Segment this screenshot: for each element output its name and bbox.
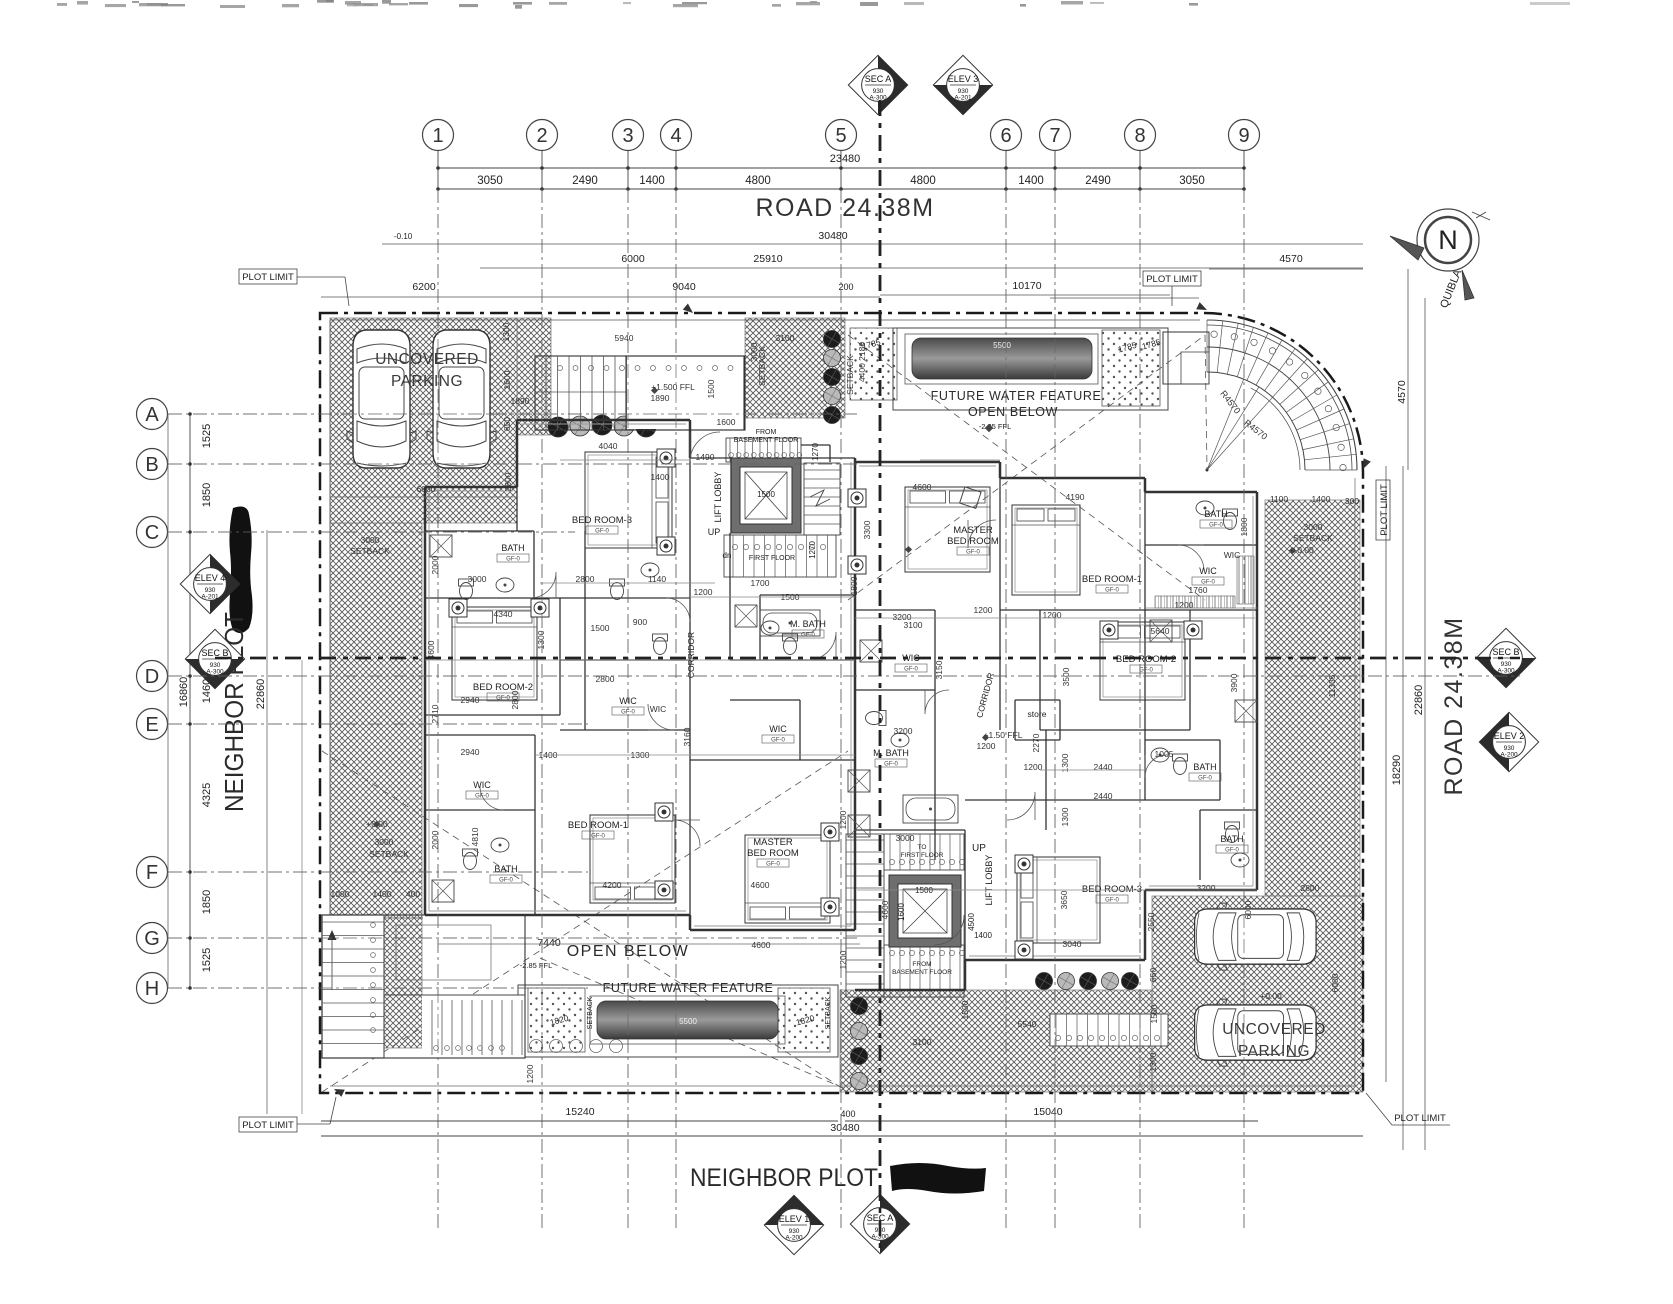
- svg-text:5500: 5500: [679, 1017, 697, 1026]
- svg-text:3100: 3100: [913, 1037, 932, 1047]
- svg-text:GF-0: GF-0: [1105, 588, 1119, 594]
- svg-text:10170: 10170: [1012, 280, 1041, 292]
- svg-text:3200: 3200: [1197, 883, 1216, 893]
- svg-text:1500: 1500: [960, 1000, 970, 1019]
- svg-text:4600: 4600: [752, 940, 771, 950]
- svg-text:LIFT LOBBY: LIFT LOBBY: [984, 855, 994, 906]
- svg-text:11335: 11335: [1327, 674, 1337, 697]
- svg-text:SETBACK: SETBACK: [369, 849, 409, 859]
- svg-text:2490: 2490: [572, 175, 598, 187]
- svg-text:30480: 30480: [830, 1122, 859, 1134]
- svg-text:1400: 1400: [373, 889, 392, 899]
- svg-text:2800: 2800: [576, 574, 595, 584]
- svg-text:ELEV 1: ELEV 1: [779, 1214, 810, 1224]
- svg-text:ELEV 3: ELEV 3: [948, 74, 979, 84]
- svg-text:3650: 3650: [1059, 890, 1069, 909]
- svg-text:GF-0: GF-0: [591, 834, 605, 840]
- svg-text:1500: 1500: [591, 623, 610, 633]
- svg-text:N: N: [1438, 225, 1458, 255]
- svg-text:1500: 1500: [706, 379, 716, 398]
- svg-text:1500: 1500: [1149, 1004, 1159, 1023]
- svg-text:3000: 3000: [1304, 522, 1323, 532]
- svg-text:PLOT LIMIT: PLOT LIMIT: [1379, 484, 1390, 536]
- svg-text:400: 400: [406, 889, 420, 899]
- svg-text:SETBACK: SETBACK: [845, 355, 855, 395]
- svg-text:1525: 1525: [201, 948, 213, 972]
- svg-text:UNCOVERED: UNCOVERED: [1222, 1021, 1326, 1038]
- svg-text:25910: 25910: [753, 253, 782, 265]
- svg-text:1600: 1600: [897, 903, 906, 921]
- svg-text:4400 2180: 4400 2180: [857, 342, 867, 382]
- svg-text:PLOT LIMIT: PLOT LIMIT: [242, 1120, 294, 1131]
- svg-text:1760: 1760: [1189, 585, 1208, 595]
- svg-text:BED ROOM: BED ROOM: [747, 848, 799, 859]
- svg-text:BATH: BATH: [1220, 834, 1243, 844]
- svg-text:-2.85 FFL: -2.85 FFL: [979, 422, 1012, 431]
- svg-text:ELEV 2: ELEV 2: [1494, 731, 1525, 741]
- svg-text:3300: 3300: [862, 520, 872, 539]
- svg-text:1800: 1800: [849, 576, 859, 595]
- svg-text:1200: 1200: [694, 587, 713, 597]
- svg-text:1200: 1200: [525, 1064, 535, 1083]
- svg-text:3000: 3000: [468, 574, 487, 584]
- svg-text:9: 9: [1238, 125, 1249, 147]
- svg-text:FROM: FROM: [756, 429, 777, 436]
- svg-text:7440: 7440: [537, 937, 561, 949]
- svg-text:2710: 2710: [430, 704, 440, 723]
- svg-text:7: 7: [1049, 125, 1060, 147]
- svg-text:1140: 1140: [648, 574, 667, 584]
- svg-text:GF-0: GF-0: [1139, 668, 1153, 674]
- svg-text:UNCOVERED: UNCOVERED: [375, 351, 479, 368]
- svg-text:2440: 2440: [1094, 791, 1113, 801]
- svg-text:2: 2: [536, 125, 547, 147]
- svg-text:C: C: [145, 522, 159, 544]
- svg-text:4340: 4340: [494, 609, 513, 619]
- svg-text:M. BATH: M. BATH: [873, 748, 909, 758]
- svg-text:-0.10: -0.10: [394, 232, 413, 241]
- svg-text:GF-0: GF-0: [475, 794, 489, 800]
- svg-text:BASEMENT FLOOR: BASEMENT FLOOR: [892, 969, 952, 976]
- svg-text:PLOT LIMIT: PLOT LIMIT: [1394, 1113, 1446, 1124]
- svg-text:4600: 4600: [751, 880, 770, 890]
- svg-text:BED ROOM-3: BED ROOM-3: [572, 515, 632, 526]
- svg-text:3050: 3050: [477, 175, 503, 187]
- svg-text:1300: 1300: [1148, 1052, 1158, 1071]
- svg-text:3160: 3160: [682, 727, 692, 746]
- svg-text:8: 8: [1134, 125, 1145, 147]
- svg-text:LIFT LOBBY: LIFT LOBBY: [713, 472, 723, 523]
- svg-text:WIC: WIC: [473, 780, 491, 790]
- svg-text:1400: 1400: [974, 931, 992, 940]
- svg-text:4570: 4570: [1396, 380, 1408, 404]
- svg-text:A-200: A-200: [785, 1235, 803, 1242]
- svg-text:3200: 3200: [893, 612, 912, 622]
- svg-text:2800: 2800: [510, 690, 520, 709]
- svg-text:ROAD 24.38M: ROAD 24.38M: [1440, 616, 1468, 795]
- svg-text:GF-0: GF-0: [966, 550, 980, 556]
- svg-text:H: H: [145, 978, 159, 1000]
- svg-text:6000: 6000: [417, 484, 436, 494]
- svg-text:5540: 5540: [1018, 1019, 1037, 1029]
- svg-text:A-200: A-200: [1500, 752, 1518, 759]
- svg-text:GF-0: GF-0: [801, 633, 815, 639]
- svg-text:GF-0: GF-0: [884, 762, 898, 768]
- svg-text:3000: 3000: [749, 342, 759, 361]
- svg-text:1300: 1300: [1060, 807, 1070, 826]
- svg-text:1000: 1000: [331, 889, 350, 899]
- svg-text:5: 5: [835, 125, 846, 147]
- svg-text:A-201: A-201: [954, 95, 972, 102]
- svg-text:1100: 1100: [1270, 494, 1289, 504]
- svg-text:1200: 1200: [838, 810, 848, 829]
- svg-text:6: 6: [1000, 125, 1011, 147]
- svg-text:A-201: A-201: [201, 594, 219, 601]
- svg-text:WIC: WIC: [1224, 550, 1241, 560]
- svg-text:D: D: [145, 666, 159, 688]
- svg-text:4810: 4810: [470, 827, 480, 846]
- svg-text:SEC A: SEC A: [865, 74, 892, 84]
- svg-text:5940: 5940: [615, 333, 634, 343]
- svg-text:GF-0: GF-0: [1105, 898, 1119, 904]
- svg-text:G: G: [144, 928, 160, 950]
- svg-text:3000: 3000: [896, 833, 915, 843]
- svg-text:+1.50 FFL: +1.50 FFL: [984, 730, 1023, 740]
- svg-text:4600: 4600: [426, 640, 436, 659]
- svg-text:2490: 2490: [1085, 175, 1111, 187]
- svg-text:BED ROOM-1: BED ROOM-1: [568, 820, 628, 831]
- svg-text:1400: 1400: [651, 472, 670, 482]
- svg-text:UP: UP: [708, 527, 721, 537]
- svg-text:ROAD 24.38M: ROAD 24.38M: [755, 194, 934, 222]
- svg-text:BED ROOM-2: BED ROOM-2: [473, 682, 533, 693]
- svg-text:A-300: A-300: [1497, 668, 1515, 675]
- svg-text:4190: 4190: [1066, 492, 1085, 502]
- svg-text:3150: 3150: [934, 660, 944, 679]
- svg-text:6200: 6200: [412, 281, 436, 293]
- svg-text:4800: 4800: [910, 175, 936, 187]
- svg-text:SEC B: SEC B: [201, 648, 228, 658]
- svg-text:2800: 2800: [1301, 883, 1320, 893]
- svg-text:GF-0: GF-0: [904, 667, 918, 673]
- svg-text:2270: 2270: [1031, 733, 1041, 752]
- svg-text:A-300: A-300: [869, 95, 887, 102]
- svg-text:NEIGHBOR PLOT: NEIGHBOR PLOT: [690, 1164, 878, 1192]
- svg-text:FROM: FROM: [912, 961, 931, 968]
- svg-text:2000: 2000: [430, 830, 440, 849]
- svg-text:1850: 1850: [201, 483, 213, 507]
- svg-text:1300: 1300: [501, 322, 511, 341]
- svg-text:4325: 4325: [201, 783, 213, 807]
- svg-text:BATH: BATH: [494, 864, 517, 874]
- svg-text:FUTURE WATER FEATURE: FUTURE WATER FEATURE: [931, 389, 1102, 403]
- svg-text:4500: 4500: [967, 913, 976, 931]
- svg-text:GF-0: GF-0: [766, 862, 780, 868]
- svg-text:PLOT LIMIT: PLOT LIMIT: [1146, 274, 1198, 285]
- svg-text:store: store: [1028, 709, 1047, 719]
- svg-text:23480: 23480: [830, 153, 861, 165]
- svg-text:SETBACK: SETBACK: [587, 996, 594, 1029]
- svg-text:2440: 2440: [1094, 762, 1113, 772]
- svg-text:3050: 3050: [1179, 175, 1205, 187]
- svg-text:A-300: A-300: [206, 669, 224, 676]
- svg-text:1200: 1200: [1024, 762, 1043, 772]
- svg-text:BED ROOM: BED ROOM: [947, 536, 999, 547]
- svg-text:30480: 30480: [818, 230, 847, 242]
- svg-text:1700: 1700: [751, 578, 770, 588]
- svg-text:2940: 2940: [461, 695, 480, 705]
- svg-text:UP: UP: [972, 843, 986, 854]
- svg-text:1200: 1200: [974, 605, 993, 615]
- svg-text:1890: 1890: [511, 396, 530, 406]
- svg-text:BED ROOM-3: BED ROOM-3: [1082, 884, 1142, 895]
- svg-text:BED ROOM-1: BED ROOM-1: [1082, 574, 1142, 585]
- svg-text:FIRST FLOOR: FIRST FLOOR: [749, 555, 795, 562]
- svg-text:GF-0: GF-0: [595, 529, 609, 535]
- svg-text:1500: 1500: [757, 490, 775, 499]
- svg-text:3040: 3040: [1063, 939, 1082, 949]
- svg-text:WIC: WIC: [769, 724, 787, 734]
- svg-text:CORRIDOR: CORRIDOR: [686, 632, 696, 678]
- svg-text:SETBACK: SETBACK: [350, 546, 390, 556]
- svg-text:2940: 2940: [461, 747, 480, 757]
- svg-text:A: A: [145, 404, 159, 426]
- svg-text:B: B: [145, 454, 158, 476]
- svg-text:+0.00: +0.00: [1260, 991, 1282, 1001]
- svg-text:BASEMENT FLOOR: BASEMENT FLOOR: [734, 437, 798, 444]
- svg-text:1200: 1200: [977, 741, 996, 751]
- svg-text:4600: 4600: [880, 900, 890, 919]
- svg-text:3000: 3000: [361, 535, 380, 545]
- svg-text:4: 4: [670, 125, 681, 147]
- svg-text:BED ROOM-2: BED ROOM-2: [1116, 654, 1176, 665]
- svg-text:1890: 1890: [651, 393, 670, 403]
- svg-text:1270: 1270: [808, 541, 817, 559]
- svg-text:4800: 4800: [745, 175, 771, 187]
- svg-text:1005: 1005: [1155, 749, 1174, 759]
- svg-text:6000: 6000: [621, 253, 645, 265]
- svg-text:SETBACK: SETBACK: [825, 996, 832, 1029]
- svg-text:900: 900: [633, 617, 647, 627]
- svg-text:OPEN BELOW: OPEN BELOW: [968, 405, 1058, 419]
- svg-text:400: 400: [840, 1109, 855, 1119]
- svg-text:GF-0: GF-0: [1198, 776, 1212, 782]
- svg-text:TO: TO: [918, 844, 927, 851]
- svg-text:1300: 1300: [536, 630, 546, 649]
- svg-text:1400: 1400: [639, 175, 665, 187]
- svg-text:6000: 6000: [1243, 900, 1253, 919]
- svg-text:GF-0: GF-0: [499, 878, 513, 884]
- svg-text:2000: 2000: [430, 555, 440, 574]
- svg-text:FIRST FLOOR: FIRST FLOOR: [901, 852, 944, 859]
- svg-text:SETBACK: SETBACK: [1293, 533, 1333, 543]
- svg-text:1: 1: [432, 125, 443, 147]
- svg-text:5500: 5500: [993, 341, 1011, 350]
- svg-text:1600: 1600: [502, 370, 512, 389]
- svg-text:1400: 1400: [1312, 494, 1331, 504]
- svg-text:2550: 2550: [1146, 912, 1156, 931]
- svg-text:E: E: [145, 714, 158, 736]
- svg-text:1600: 1600: [717, 417, 736, 427]
- svg-text:F: F: [146, 862, 158, 884]
- svg-text:1525: 1525: [201, 424, 213, 448]
- svg-text:4600: 4600: [913, 482, 932, 492]
- svg-text:4040: 4040: [599, 441, 618, 451]
- svg-text:4200: 4200: [603, 880, 622, 890]
- svg-text:ELEV 4: ELEV 4: [195, 573, 226, 583]
- svg-text:650: 650: [502, 417, 512, 431]
- svg-text:GF-0: GF-0: [1209, 523, 1223, 529]
- svg-text:BATH: BATH: [1193, 762, 1216, 772]
- svg-text:GF-0: GF-0: [496, 696, 510, 702]
- svg-text:1500: 1500: [915, 886, 933, 895]
- svg-text:BATH: BATH: [1204, 509, 1227, 519]
- svg-text:22860: 22860: [255, 679, 267, 710]
- svg-text:1300: 1300: [1060, 753, 1070, 772]
- svg-text:MASTER: MASTER: [753, 837, 793, 848]
- svg-text:4570: 4570: [1279, 253, 1303, 265]
- svg-text:3200: 3200: [894, 726, 913, 736]
- svg-text:15240: 15240: [565, 1106, 594, 1118]
- svg-text:M. BATH: M. BATH: [790, 619, 826, 629]
- svg-text:BATH: BATH: [501, 543, 524, 553]
- svg-text:PLOT LIMIT: PLOT LIMIT: [242, 272, 294, 283]
- svg-text:650: 650: [1148, 968, 1158, 982]
- svg-text:15040: 15040: [1033, 1106, 1062, 1118]
- svg-text:1400: 1400: [1018, 175, 1044, 187]
- svg-text:3: 3: [622, 125, 633, 147]
- svg-text:GF-0: GF-0: [506, 557, 520, 563]
- svg-text:WIC: WIC: [650, 704, 667, 714]
- svg-text:GF-0: GF-0: [1225, 848, 1239, 854]
- svg-text:WIC: WIC: [1199, 566, 1217, 576]
- svg-text:1850: 1850: [201, 890, 213, 914]
- svg-text:22860: 22860: [1413, 685, 1425, 716]
- svg-text:3100: 3100: [776, 333, 795, 343]
- svg-text:1200: 1200: [1175, 600, 1194, 610]
- svg-text:6000: 6000: [1330, 973, 1340, 992]
- svg-text:18290: 18290: [1391, 755, 1403, 786]
- svg-text:1200: 1200: [838, 950, 848, 969]
- svg-text:300: 300: [1345, 496, 1359, 506]
- svg-text:1200: 1200: [1043, 610, 1062, 620]
- svg-text:MASTER: MASTER: [953, 525, 993, 536]
- svg-text:2800: 2800: [596, 674, 615, 684]
- svg-text:GF-0: GF-0: [771, 738, 785, 744]
- svg-text:PARKING: PARKING: [391, 373, 463, 390]
- svg-text:PARKING: PARKING: [1238, 1043, 1310, 1060]
- svg-text:SEC B: SEC B: [1492, 647, 1519, 657]
- svg-text:1490: 1490: [696, 452, 715, 462]
- svg-text:16860: 16860: [178, 677, 190, 708]
- svg-text:3000: 3000: [375, 837, 394, 847]
- svg-text:2600: 2600: [503, 472, 513, 491]
- svg-text:3500: 3500: [1061, 667, 1071, 686]
- svg-text:5640: 5640: [1151, 626, 1170, 636]
